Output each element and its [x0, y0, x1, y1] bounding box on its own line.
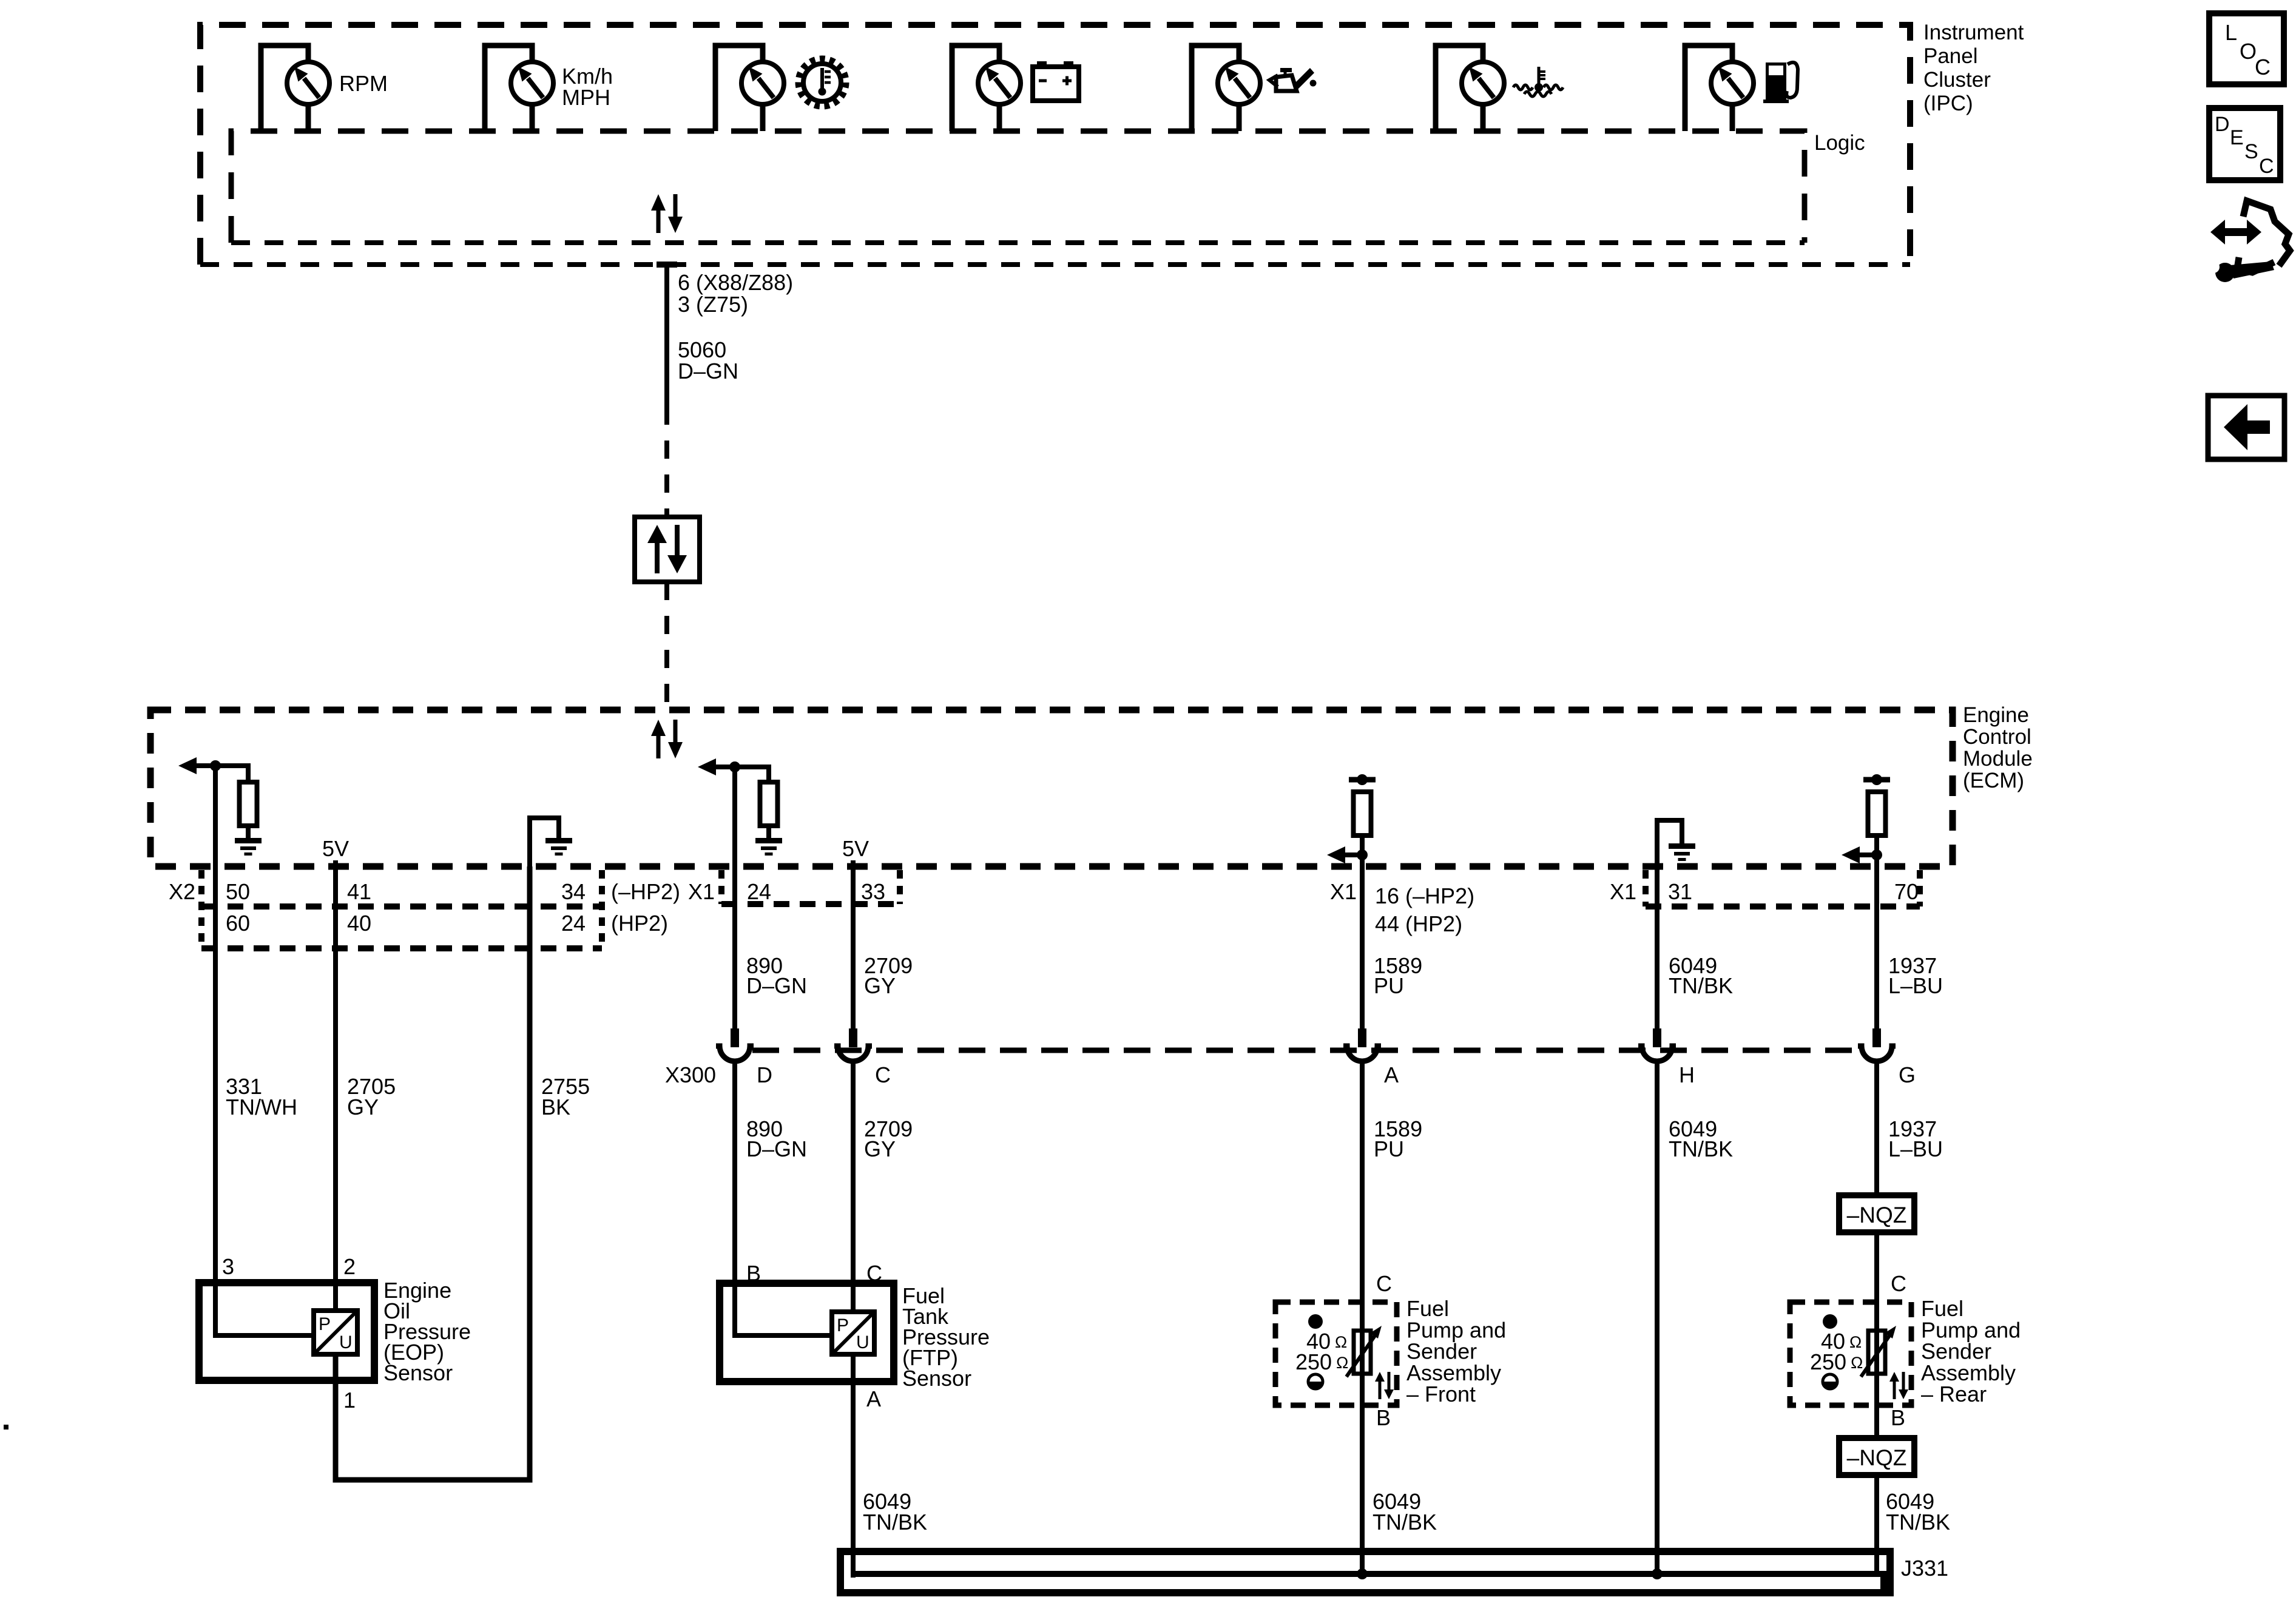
battery icon	[1033, 61, 1079, 101]
label 1937 L-BU upper	[1888, 953, 1943, 998]
wire node to resistor	[215, 766, 248, 782]
svg-text:– Rear: – Rear	[1921, 1382, 1987, 1406]
LOC reference box	[2209, 13, 2284, 84]
svg-text:B: B	[1376, 1405, 1391, 1430]
label 2709 GY upper	[864, 953, 913, 998]
resistor front sender pull-up	[1354, 792, 1371, 836]
svg-text:L–BU: L–BU	[1888, 973, 1943, 998]
inline connector X300 terminal A	[1343, 1028, 1381, 1061]
pin numbers row 1 (X2)	[226, 879, 586, 904]
label 331 TN/WH	[226, 1074, 297, 1119]
label 6 (X88/Z88) 3 (Z75)	[678, 270, 793, 317]
svg-text:(–HP2): (–HP2)	[611, 879, 680, 904]
wire 1937 L-BU upper (pin 70 to X300 G)	[1874, 866, 1879, 1031]
svg-text:Logic: Logic	[1814, 131, 1865, 155]
label 6049 TN/BK lower	[1669, 1116, 1733, 1161]
label 890 D-GN lower	[746, 1116, 807, 1161]
ECM internal node arrow (rear sender)	[1842, 846, 1877, 863]
fuel gauge icon (fuel pump)	[1763, 62, 1798, 103]
svg-text:X300: X300	[665, 1062, 716, 1087]
svg-text:50: 50	[226, 879, 250, 904]
svg-text:GY: GY	[347, 1095, 379, 1119]
EOP internal wire pin 3	[215, 1283, 314, 1335]
svg-text:250Ω: 250Ω	[1810, 1349, 1863, 1374]
svg-text:44 (HP2): 44 (HP2)	[1375, 911, 1462, 936]
resistor FTP pull-down	[760, 782, 778, 826]
connector X2 pin box (EOP)	[201, 870, 602, 948]
pin numbers row 2 (X2)	[226, 911, 586, 936]
ground symbol (FTP resistor)	[755, 838, 782, 856]
wire rear sender signal to pin 70	[1874, 855, 1879, 866]
svg-text:PU: PU	[1374, 973, 1404, 998]
svg-text:C: C	[1891, 1271, 1906, 1296]
svg-text:C: C	[1376, 1271, 1392, 1296]
pin numbers 3 and 2 (EOP)	[222, 1254, 356, 1279]
svg-text:D–GN: D–GN	[746, 973, 807, 998]
svg-text:24: 24	[561, 911, 586, 936]
Instrument Panel Cluster (IPC) dashed box	[200, 25, 1910, 265]
tachometer gauge G1 (RPM)	[261, 46, 329, 131]
pin label 16/44 (front sender)	[1375, 883, 1474, 936]
svg-text:O: O	[2240, 39, 2257, 64]
wire 6049 TN/BK lower (X300 H to ground bus)	[1655, 1062, 1660, 1574]
wire through rear sender	[1874, 1302, 1879, 1405]
svg-text:2: 2	[343, 1254, 356, 1279]
svg-text:(IPC): (IPC)	[1923, 92, 1973, 115]
wire dashed segment lower	[664, 582, 669, 710]
svg-text:P: P	[319, 1314, 331, 1334]
speedometer gauge G2 (Km/h MPH)	[485, 46, 553, 131]
FTP internal wire pin B	[735, 1283, 832, 1335]
wire 890 D-GN lower (X300 D to FTP B)	[732, 1062, 737, 1283]
svg-text:BK: BK	[541, 1095, 570, 1119]
internal supply bar (front sender)	[1349, 777, 1376, 783]
back arrow box	[2208, 396, 2284, 459]
label 1937 L-BU lower	[1888, 1116, 1943, 1161]
label 6049 TN/BK upper	[1669, 953, 1733, 998]
svg-text:X1: X1	[688, 879, 715, 904]
label 890 D-GN upper	[746, 953, 807, 998]
front sender label	[1406, 1296, 1506, 1406]
Fuel Tank Pressure (FTP) Sensor box	[720, 1283, 894, 1382]
svg-text:C: C	[2259, 155, 2274, 178]
wire resistor to ground (FTP)	[766, 825, 771, 839]
pin numbers (FTP)	[747, 879, 885, 904]
jump navigation icon (double arrow with wrench)	[2207, 201, 2290, 282]
internal supply bar (rear sender)	[1863, 777, 1890, 783]
svg-text:3 (Z75): 3 (Z75)	[678, 292, 748, 317]
label 6049 TN/BK (front)	[1373, 1489, 1437, 1534]
wire 331 TN/WH (pin 50 to EOP 3)	[213, 866, 218, 1283]
svg-text:TN/BK: TN/BK	[863, 1510, 927, 1534]
coolant temp gauge G6	[1436, 46, 1504, 131]
wire resistor to node (rear)	[1874, 836, 1879, 855]
inline connector X300 terminal C	[834, 1028, 872, 1061]
label 2709 GY lower	[864, 1116, 913, 1161]
Km/h MPH label	[562, 64, 613, 110]
Engine Control Module (ECM) dashed box	[150, 710, 1953, 866]
wire EOP signal down to pin 50	[213, 766, 218, 866]
svg-text:B: B	[1891, 1405, 1905, 1430]
svg-text:J331: J331	[1901, 1556, 1948, 1581]
svg-text:G: G	[1899, 1062, 1916, 1087]
terminal bar below IPC	[657, 262, 677, 268]
svg-text:6 (X88/Z88): 6 (X88/Z88)	[678, 270, 793, 295]
wire 1589 PU upper (pin 16/44 to X300 A)	[1360, 866, 1365, 1031]
wire resistor to node (front)	[1360, 836, 1365, 855]
junction dot top (rear sender)	[1871, 774, 1882, 785]
stray mark bottom left	[4, 1425, 8, 1430]
connector X1 pin box (FTP)	[721, 870, 900, 904]
ground symbol (pin 31)	[1669, 843, 1695, 861]
splice pack -NQZ upper	[1839, 1195, 1914, 1232]
ECM internal node arrow (front sender)	[1327, 846, 1362, 863]
svg-text:U: U	[339, 1332, 353, 1352]
resistor rear sender pull-up	[1868, 792, 1886, 836]
wire rear B to -NQZ lower	[1874, 1405, 1879, 1438]
label 1589 PU lower	[1374, 1116, 1422, 1161]
svg-text:A: A	[1384, 1062, 1399, 1087]
pin letters B and C (FTP)	[746, 1261, 882, 1286]
junction dot FTP node	[729, 761, 740, 772]
wire -NQZ to rear sender C	[1874, 1232, 1879, 1302]
wire 2709 GY upper (pin 33 to X300 C)	[851, 860, 856, 1031]
label 2755 BK	[541, 1074, 590, 1119]
label 6049 TN/BK (rear)	[1886, 1489, 1950, 1534]
voltmeter gauge G4 (battery)	[952, 46, 1021, 131]
transmission temperature icon (gear with thermometer)	[799, 59, 845, 106]
connector X1 pin box (31/70)	[1646, 870, 1920, 906]
svg-text:L–BU: L–BU	[1888, 1136, 1943, 1161]
resistor EOP pull-down	[240, 782, 257, 826]
svg-text:GY: GY	[864, 973, 896, 998]
junction dot top (front sender)	[1357, 774, 1368, 785]
svg-text:3: 3	[222, 1254, 234, 1279]
Engine Oil Pressure (EOP) Sensor box	[199, 1283, 374, 1380]
wire 6049 TN/BK upper (pin 31 to X300 H)	[1655, 866, 1660, 1031]
oil pressure icon (oil can)	[1269, 68, 1317, 91]
svg-text:41: 41	[347, 879, 371, 904]
svg-text:Sensor: Sensor	[902, 1366, 971, 1391]
inline connector X300 terminal D	[716, 1028, 754, 1061]
EOP label	[383, 1278, 471, 1385]
svg-text:S: S	[2244, 140, 2258, 163]
svg-text:Panel: Panel	[1923, 44, 1978, 68]
svg-text:31: 31	[1668, 879, 1692, 904]
svg-text:Instrument: Instrument	[1923, 21, 2024, 44]
svg-text:C: C	[875, 1062, 891, 1087]
ground bus bar J331 outline	[840, 1551, 1890, 1593]
svg-text:PU: PU	[1374, 1136, 1404, 1161]
wire front sender signal to pin 16/44	[1360, 855, 1365, 866]
ECM label	[1963, 703, 2033, 792]
svg-text:D–GN: D–GN	[678, 359, 738, 383]
wire 5060 D-GN solid segment	[664, 265, 669, 407]
connector X300 dashed line	[752, 1048, 1862, 1053]
DESC reference box	[2209, 108, 2280, 180]
svg-text:H: H	[1679, 1062, 1695, 1087]
svg-text:X1: X1	[1330, 879, 1357, 904]
svg-text:TN/BK: TN/BK	[1373, 1510, 1437, 1534]
junction dot (ECM pin 31 ground)	[1652, 1568, 1663, 1579]
oil pressure gauge G5	[1192, 46, 1260, 131]
wire 2705 GY (pin 41 to EOP 2)	[333, 860, 338, 1311]
serial data up/down arrows (IPC side)	[651, 194, 683, 233]
svg-text:33: 33	[861, 879, 885, 904]
svg-text:34: 34	[561, 879, 586, 904]
wire 6049 TN/BK (FTP A to ground bus)	[851, 1354, 856, 1578]
Fuel Pump and Sender Assembly - Front box	[1275, 1302, 1397, 1405]
P/U transducer EOP	[314, 1311, 357, 1354]
ECM internal node arrow (EOP signal)	[178, 757, 215, 774]
junction dot rear sender node	[1871, 849, 1882, 860]
svg-text:24: 24	[747, 879, 771, 904]
label 2705 GY	[347, 1074, 396, 1119]
wire 1937 L-BU lower (X300 G to -NQZ)	[1874, 1062, 1879, 1195]
wire FTP signal down to pin 24	[732, 767, 737, 866]
svg-text:D–GN: D–GN	[746, 1136, 807, 1161]
coolant temperature icon	[1513, 67, 1563, 96]
svg-text:C: C	[2255, 55, 2271, 79]
junction dot EOP node	[210, 760, 221, 771]
svg-text:L: L	[2225, 20, 2237, 45]
svg-text:(HP2): (HP2)	[611, 911, 668, 936]
svg-text:D: D	[757, 1062, 772, 1087]
ground symbol (EOP resistor)	[235, 838, 262, 856]
Logic dashed box	[231, 131, 1805, 243]
svg-text:Engine: Engine	[1963, 703, 2029, 727]
svg-text:TN/WH: TN/WH	[226, 1095, 297, 1119]
FTP label	[902, 1283, 990, 1391]
serial data up/down arrows (ECM side)	[651, 720, 683, 758]
ground hook wire pin 31	[1657, 820, 1682, 866]
svg-text:MPH: MPH	[562, 85, 610, 110]
svg-text:X2: X2	[169, 879, 195, 904]
Fuel Pump and Sender Assembly - Rear box	[1790, 1302, 1911, 1405]
pin numbers 31 and 70	[1668, 879, 1919, 904]
splice pack -NQZ lower	[1839, 1438, 1914, 1475]
svg-text:U: U	[856, 1332, 869, 1352]
label 6049 TN/BK (FTP)	[863, 1489, 927, 1534]
IPC label	[1923, 21, 2024, 115]
svg-text:5V: 5V	[322, 836, 349, 861]
rear sender label	[1921, 1296, 2021, 1406]
svg-text:X1: X1	[1610, 879, 1636, 904]
wire 2755 BK (pin 34 to EOP 1)	[336, 866, 530, 1480]
inline connector X300 terminal G	[1858, 1028, 1896, 1061]
svg-text:RPM: RPM	[339, 71, 388, 96]
svg-text:Sensor: Sensor	[383, 1360, 453, 1385]
P/U transducer FTP	[832, 1312, 874, 1354]
label 1589 PU upper	[1374, 953, 1422, 998]
svg-text:5V: 5V	[842, 836, 869, 861]
svg-text:–NQZ: –NQZ	[1847, 1203, 1907, 1227]
svg-text:40: 40	[347, 911, 371, 936]
wire dashed segment upper	[664, 407, 669, 517]
wire through front sender	[1360, 1302, 1365, 1405]
label 5060 D-GN	[678, 337, 738, 383]
ECM internal node arrow (FTP signal)	[698, 758, 735, 775]
svg-text:Cluster: Cluster	[1923, 68, 1991, 92]
svg-text:–NQZ: –NQZ	[1847, 1445, 1907, 1470]
svg-text:GY: GY	[864, 1136, 896, 1161]
wire resistor to ground	[246, 825, 251, 839]
svg-text:D: D	[2215, 113, 2230, 136]
inline connector symbol with up/down arrows	[635, 517, 700, 582]
svg-text:16 (–HP2): 16 (–HP2)	[1375, 883, 1474, 908]
svg-text:TN/BK: TN/BK	[1669, 973, 1733, 998]
svg-text:70: 70	[1894, 879, 1919, 904]
svg-text:– Front: – Front	[1406, 1382, 1476, 1406]
svg-text:TN/BK: TN/BK	[1886, 1510, 1950, 1534]
svg-text:P: P	[837, 1315, 849, 1335]
ground hook wire pin 34	[530, 818, 559, 866]
svg-text:1: 1	[343, 1388, 356, 1413]
wire 2709 GY lower (X300 C to FTP C)	[851, 1062, 856, 1312]
wire 6049 TN/BK (front B to ground bus)	[1360, 1405, 1365, 1574]
svg-text:250Ω: 250Ω	[1295, 1349, 1348, 1374]
inline connector X300 terminal H	[1638, 1028, 1676, 1061]
junction dot (front sender ground)	[1357, 1568, 1368, 1579]
wire 1589 PU lower (X300 A to front sender C)	[1360, 1062, 1365, 1302]
transmission temp gauge G3	[715, 46, 784, 131]
svg-text:E: E	[2230, 126, 2244, 149]
svg-text:A: A	[866, 1386, 881, 1411]
svg-text:(ECM): (ECM)	[1963, 769, 2024, 792]
junction dot front sender node	[1357, 849, 1368, 860]
ground symbol (pin 34)	[545, 838, 572, 856]
svg-text:Module: Module	[1963, 747, 2033, 771]
wire 6049 TN/BK (rear to ground bus)	[1874, 1475, 1879, 1574]
svg-text:TN/BK: TN/BK	[1669, 1136, 1733, 1161]
wire node to resistor (FTP)	[735, 767, 769, 782]
fuel level gauge G7	[1685, 46, 1754, 131]
svg-text:60: 60	[226, 911, 250, 936]
ground bus wire	[853, 1574, 1883, 1591]
svg-text:Control: Control	[1963, 725, 2031, 749]
wire 890 D-GN upper (pin 24 to X300 D)	[732, 866, 737, 1031]
